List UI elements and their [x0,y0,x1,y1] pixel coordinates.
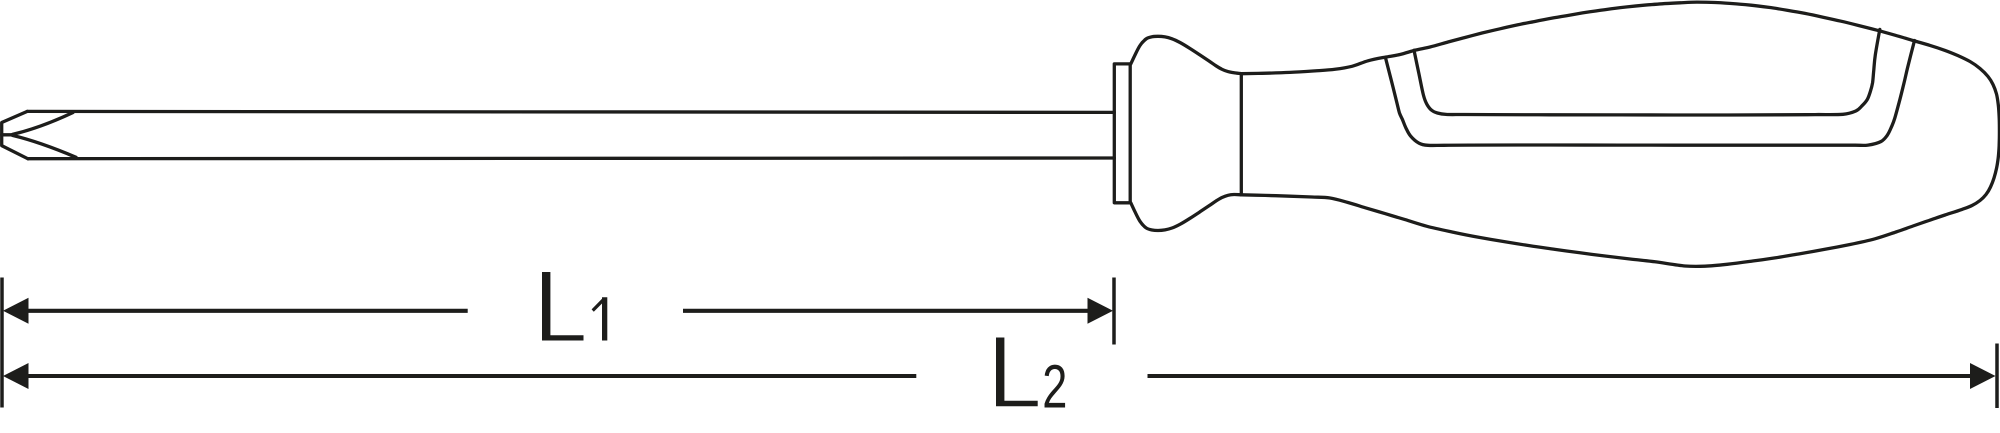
ferrule [1114,64,1130,203]
phillips tip outline [2,111,28,158]
phillips tip lower flute curve [13,135,77,157]
svg-text:2: 2 [1042,353,1067,421]
left extension tick [0,278,4,408]
shaft top line [27,111,1114,112]
L2 dimension line right segment [1148,374,1974,378]
phillips tip centre seam [2,133,13,136]
label L1: subscript 1 [592,297,608,340]
L1 right arrowhead [1088,298,1114,324]
L2 dimension line left segment [26,374,916,378]
phillips tip upper flute curve [13,113,74,135]
label L2: subscript 2 [1042,353,1067,421]
inner grip inlay contour [1414,29,1880,115]
bell top [1131,36,1242,73]
dimension graphics [2,278,1997,409]
outer grip inlay contour [1385,41,1914,146]
handle outline [1241,2,1999,266]
label L2: letter L [996,338,1038,407]
L1 right tick [1112,278,1116,345]
bell bottom [1131,194,1242,230]
label L1: letter L [542,272,584,341]
L1 dimension line right segment [683,309,1091,313]
shaft bottom line [28,156,1114,160]
L2 left arrowhead [3,363,29,389]
divider line between collar and grip [1240,75,1243,195]
L2 right tick [1995,344,1999,409]
L1 dimension line left segment [26,309,468,313]
L1 left arrowhead [3,298,29,324]
L2 right arrowhead [1970,363,1996,389]
